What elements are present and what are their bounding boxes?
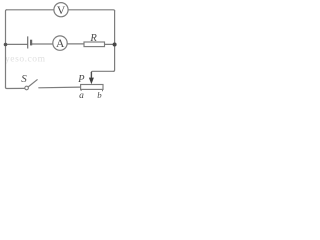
wire left vertical — [6, 10, 7, 88]
svg-text:a: a — [79, 91, 84, 101]
svg-text:R: R — [89, 33, 97, 44]
wire right vertical — [113, 11, 114, 72]
terminal stub a — [80, 90, 82, 91]
voltmeter U-V circle — [54, 3, 68, 17]
svg-text:V: V — [57, 4, 66, 17]
svg-text:yeso.com: yeso.com — [5, 55, 46, 65]
potentiometer body — [81, 85, 103, 90]
wire resistor to right dot — [105, 43, 115, 45]
wire bottom left to switch — [6, 87, 25, 89]
svg-text:P: P — [77, 74, 85, 85]
svg-text:S: S — [21, 73, 27, 85]
svg-text:b: b — [97, 90, 102, 100]
junction dot right node — [113, 43, 117, 47]
svg-text:A: A — [56, 37, 65, 50]
ammeter U-A circle — [53, 36, 67, 50]
terminal stub b — [102, 90, 104, 92]
switch S hinge circle — [25, 86, 29, 90]
switch S blade — [28, 80, 37, 87]
resistor R body — [84, 42, 105, 47]
wire switch to potentiometer — [39, 86, 81, 89]
potentiometer wiper arrow — [90, 72, 92, 78]
wire battery to ammeter — [32, 43, 53, 45]
wire from right corner to wiper — [91, 71, 113, 72]
wire ammeter to resistor — [67, 43, 84, 45]
battery cell: short thick plate — [30, 40, 32, 46]
wire top left segment — [7, 9, 54, 11]
battery cell: long plate — [27, 36, 29, 48]
junction dot left node — [4, 43, 8, 47]
wire top right segment — [68, 10, 115, 11]
wire middle: dot to battery — [6, 43, 28, 45]
